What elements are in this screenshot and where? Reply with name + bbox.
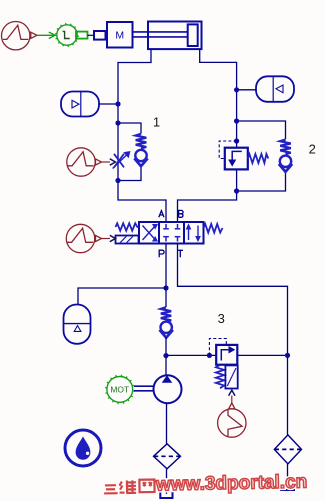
- wire cylinder left port to node A branch: [118, 49, 166, 222]
- shaft link: [134, 386, 154, 391]
- wire sensor S2 link: [237, 89, 256, 91]
- wire right filter to tank: [287, 464, 289, 485]
- servo amplifier E1 (green circle): [55, 23, 79, 47]
- pilot dashed line comp3: [209, 339, 226, 356]
- coupling box: [94, 31, 106, 40]
- check valve spring (comp2): [280, 140, 291, 154]
- valve proportional solenoid: [116, 236, 139, 244]
- node dot comp1 bottom: [115, 178, 120, 183]
- flow control valve 1 : bypass branch wire: [118, 123, 141, 134]
- valve centre position blocked ports: [163, 224, 180, 242]
- pressure sensor S2 (right capsule): [256, 76, 294, 102]
- svg-text:2: 2: [309, 141, 316, 156]
- relief valve spring (comp3): [216, 365, 224, 388]
- wire valve P port down: [165, 244, 167, 308]
- position sensor box (green): [76, 32, 88, 39]
- label T: [178, 250, 183, 257]
- pressure sensor S1 (left capsule): [61, 92, 99, 117]
- valve right position parallel arrows: [186, 225, 200, 242]
- filter (pump suction): [154, 444, 181, 469]
- wire pump suction: [166, 403, 168, 444]
- tank (right): [281, 484, 294, 491]
- proportional solenoid (comp3): [225, 365, 237, 388]
- node dot comp2 pilot: [234, 138, 239, 143]
- signal generator G4 (relief control): [218, 403, 246, 437]
- label A: [159, 211, 164, 218]
- valve right spring: [204, 224, 223, 233]
- accumulator: [64, 305, 91, 344]
- wire accumulator link: [78, 288, 166, 305]
- relief valve spring (comp2): [248, 154, 268, 163]
- check valve on pump line : spring: [161, 307, 171, 321]
- node dot S1 junction: [115, 101, 120, 106]
- mass M: [107, 22, 133, 48]
- logo droplet: [65, 430, 101, 466]
- relief valve body (comp2): [225, 148, 248, 170]
- check valve on pump line : ball: [161, 322, 172, 333]
- node dot comp1 top: [115, 120, 120, 125]
- pilot dashed line comp2: [219, 141, 236, 159]
- piston rod: [133, 32, 188, 37]
- wire control link G2: [102, 161, 111, 163]
- electric motor MOT: [105, 375, 134, 404]
- check valve ball (comp2): [280, 156, 291, 167]
- wire mechanical link: [88, 34, 95, 36]
- signal generator G1 (ramp source, top left): [2, 22, 37, 50]
- wire pump outlet to relief 3 and tank: [166, 354, 225, 356]
- svg-text:3: 3: [218, 311, 225, 326]
- check valve ball (comp1): [135, 150, 146, 161]
- label B: [179, 210, 184, 217]
- signal generator G2 (throttle control): [67, 148, 102, 176]
- counterbalance valve 2 : branch wire: [237, 121, 286, 139]
- filter (tank line right): [274, 435, 301, 464]
- cylinder barrel: [148, 22, 202, 50]
- node dot S2 junction: [234, 87, 239, 92]
- wire cylinder right port down right side: [200, 49, 237, 148]
- wire filter to tank: [166, 469, 168, 494]
- svg-text:M: M: [115, 29, 124, 41]
- svg-text:1: 1: [153, 115, 160, 130]
- wire green signal link: [37, 32, 56, 38]
- label P: [159, 250, 164, 257]
- check valve seat (comp1): [134, 158, 147, 166]
- valve left position crossed arrows: [143, 225, 158, 242]
- svg-text:www.3dportal.cn: www.3dportal.cn: [155, 472, 308, 496]
- wire check valve to pump: [165, 337, 167, 375]
- valve left spring: [116, 223, 140, 230]
- wire sensor S1 link: [99, 103, 118, 105]
- node dot pump outlet junction: [163, 353, 168, 358]
- node dot tank line junction: [285, 353, 290, 358]
- check valve seat (comp2): [279, 164, 292, 172]
- relief valve arrow (comp3): [221, 347, 234, 361]
- node dot relief pilot junction: [207, 353, 212, 358]
- signal generator G3 (valve control): [66, 224, 101, 252]
- cylinder piston: [188, 24, 198, 46]
- svg-text:MOT: MOT: [110, 384, 129, 394]
- proportional directional valve 4/3 body: [139, 222, 204, 244]
- pump: [154, 375, 182, 403]
- node dot comp2 top: [234, 118, 239, 123]
- node dot P accumulator junction: [163, 285, 168, 290]
- wire control link G3: [102, 238, 111, 240]
- relief valve body (comp3): [216, 345, 237, 365]
- tank (left): [160, 491, 172, 499]
- check valve spring (comp1): [136, 134, 147, 148]
- throttle valve (comp1, adjustable): [113, 152, 130, 169]
- wire control link G4: [231, 396, 233, 403]
- wire below relief valve 2 to valve port B: [178, 169, 237, 222]
- wire valve T port to tank line: [178, 244, 288, 435]
- watermark: [104, 472, 308, 497]
- node dot comp2 bottom: [234, 188, 239, 193]
- check valve on pump line : seat: [160, 330, 173, 338]
- relief valve arrow (comp2): [229, 151, 242, 165]
